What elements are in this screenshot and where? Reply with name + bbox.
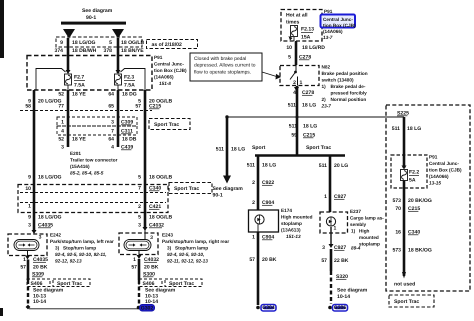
- svg-text:Trailer tow connector: Trailer tow connector: [70, 158, 118, 163]
- svg-text:511: 511: [289, 124, 297, 130]
- svg-text:52: 52: [58, 92, 64, 98]
- svg-text:20 LG: 20 LG: [334, 163, 348, 169]
- svg-text:57: 57: [249, 257, 255, 263]
- svg-text:18 LG/OG: 18 LG/OG: [38, 215, 62, 221]
- svg-text:1: 1: [28, 204, 31, 210]
- svg-text:sembly: sembly: [350, 222, 367, 227]
- svg-text:10: 10: [25, 186, 31, 192]
- svg-text:10: 10: [286, 45, 292, 51]
- svg-text:Central Junc-: Central Junc-: [323, 17, 353, 22]
- svg-text:1: 1: [61, 120, 64, 126]
- svg-text:F2.3: F2.3: [124, 75, 134, 81]
- svg-text:18 LG/OG: 18 LG/OG: [38, 175, 62, 181]
- svg-text:5: 5: [109, 40, 112, 46]
- svg-text:flow to operate stoplamps.: flow to operate stoplamps.: [194, 69, 251, 75]
- svg-text:depressed. Allows current to: depressed. Allows current to: [194, 63, 256, 69]
- svg-text:9: 9: [28, 175, 31, 181]
- svg-text:tion Box (CJB): tion Box (CJB): [154, 68, 187, 73]
- svg-text:Closed with brake pedal: Closed with brake pedal: [194, 56, 246, 62]
- svg-text:3: 3: [28, 223, 31, 229]
- svg-text:10-14: 10-14: [337, 294, 350, 300]
- svg-text:3: 3: [150, 235, 153, 241]
- svg-text:18 LG/OG: 18 LG/OG: [72, 40, 96, 46]
- svg-text:3: 3: [322, 245, 325, 251]
- svg-text:Park/stop/turn lamp, left rear: Park/stop/turn lamp, left rear: [50, 239, 114, 244]
- svg-text:92-11, 92-12, 92-13: 92-11, 92-12, 92-13: [167, 258, 208, 263]
- svg-text:1: 1: [133, 257, 136, 263]
- svg-text:Stop/turn lamp: Stop/turn lamp: [63, 245, 96, 250]
- svg-text:5: 5: [288, 55, 291, 61]
- svg-text:7: 7: [111, 129, 114, 135]
- svg-text:3: 3: [39, 235, 42, 241]
- svg-text:2): 2): [322, 97, 327, 102]
- svg-text:90-1: 90-1: [86, 15, 96, 21]
- svg-text:See diagram: See diagram: [82, 8, 113, 14]
- svg-text:511: 511: [247, 163, 255, 169]
- svg-text:3: 3: [111, 120, 114, 126]
- svg-text:(15A416): (15A416): [70, 164, 90, 169]
- svg-text:64: 64: [108, 137, 114, 143]
- svg-text:F2.13: F2.13: [301, 27, 314, 33]
- svg-text:10-14: 10-14: [33, 299, 46, 305]
- svg-text:Sport Trac: Sport Trac: [169, 281, 194, 287]
- svg-text:151-13: 151-13: [286, 234, 301, 239]
- svg-text:3: 3: [138, 223, 141, 229]
- svg-text:18 LG: 18 LG: [303, 124, 317, 130]
- svg-text:374: 374: [55, 48, 64, 54]
- svg-text:57: 57: [135, 104, 141, 110]
- svg-text:5: 5: [138, 215, 141, 221]
- svg-text:57: 57: [321, 258, 327, 264]
- svg-text:stoplamp: stoplamp: [281, 221, 302, 226]
- svg-text:58: 58: [25, 104, 31, 110]
- svg-text:57: 57: [131, 265, 137, 271]
- svg-text:16: 16: [395, 230, 401, 236]
- svg-text:not used: not used: [394, 282, 415, 288]
- svg-text:13-15: 13-15: [429, 181, 441, 186]
- svg-text:511: 511: [288, 103, 296, 109]
- svg-text:18 OG/LB: 18 OG/LB: [121, 40, 145, 46]
- svg-text:Sport Trac: Sport Trac: [394, 299, 419, 305]
- svg-text:Hot at all: Hot at all: [286, 13, 308, 19]
- svg-text:B: B: [67, 31, 71, 37]
- svg-text:F2.7: F2.7: [74, 75, 84, 81]
- svg-text:times: times: [286, 20, 299, 26]
- svg-text:511: 511: [216, 147, 224, 153]
- svg-text:Sport Trac: Sport Trac: [174, 186, 199, 192]
- svg-text:(14A066): (14A066): [323, 29, 343, 34]
- svg-text:89-4: 89-4: [351, 246, 361, 251]
- svg-text:4: 4: [61, 129, 64, 135]
- svg-text:20 BK: 20 BK: [144, 265, 159, 271]
- svg-text:18 BN/YE: 18 BN/YE: [121, 48, 144, 54]
- svg-text:G302: G302: [141, 305, 154, 311]
- svg-text:Stop/turn lamp: Stop/turn lamp: [175, 245, 208, 250]
- svg-text:(14A066): (14A066): [154, 75, 174, 80]
- svg-text:18 LG: 18 LG: [231, 147, 245, 153]
- svg-text:13-7: 13-7: [323, 35, 333, 40]
- svg-text:18 YE: 18 YE: [72, 92, 86, 98]
- svg-text:18 YE: 18 YE: [72, 137, 86, 143]
- svg-text:switch (13480): switch (13480): [322, 78, 354, 83]
- svg-text:F2.2: F2.2: [409, 170, 419, 176]
- svg-text:7.5A: 7.5A: [124, 83, 135, 89]
- svg-text:2: 2: [138, 204, 141, 210]
- svg-text:151-8: 151-8: [159, 81, 171, 86]
- svg-text:stoplamp: stoplamp: [359, 242, 380, 247]
- svg-text:9: 9: [60, 40, 63, 46]
- svg-text:2: 2: [293, 80, 296, 86]
- svg-text:Central Junc-: Central Junc-: [429, 161, 459, 166]
- svg-text:18 BK/OG: 18 BK/OG: [408, 248, 432, 254]
- svg-text:22 BK: 22 BK: [334, 258, 349, 264]
- svg-text:7: 7: [138, 186, 141, 192]
- svg-text:(14A066): (14A066): [429, 174, 449, 179]
- svg-text:mounted: mounted: [359, 235, 379, 240]
- svg-text:1: 1: [300, 80, 303, 86]
- svg-text:High: High: [359, 229, 370, 234]
- svg-text:See diagram: See diagram: [337, 288, 368, 294]
- svg-text:92-4, 92-5, 92-10,: 92-4, 92-5, 92-10,: [167, 252, 204, 257]
- svg-text:P91: P91: [154, 55, 163, 60]
- svg-text:Sport: Sport: [252, 145, 266, 151]
- svg-text:(13A613): (13A613): [281, 228, 301, 233]
- svg-text:1: 1: [252, 235, 255, 241]
- svg-text:18 LG: 18 LG: [262, 163, 276, 169]
- svg-text:18 OG/LB: 18 OG/LB: [149, 175, 173, 181]
- svg-text:G306: G306: [334, 305, 347, 311]
- svg-text:18 DG: 18 DG: [122, 92, 137, 98]
- svg-text:65: 65: [108, 104, 114, 110]
- svg-text:High mounted: High mounted: [281, 215, 313, 220]
- svg-text:as of 2/18/02: as of 2/18/02: [152, 42, 182, 48]
- svg-text:77: 77: [58, 104, 64, 110]
- svg-text:Sport Trac: Sport Trac: [154, 122, 179, 128]
- svg-text:378: 378: [104, 48, 113, 54]
- svg-text:S406: S406: [31, 281, 43, 287]
- svg-text:C: C: [116, 31, 120, 37]
- svg-text:S406: S406: [143, 281, 155, 287]
- svg-text:18 DB: 18 DB: [122, 137, 137, 143]
- svg-text:pressed forcibly: pressed forcibly: [331, 91, 368, 96]
- svg-text:3): 3): [167, 245, 172, 250]
- svg-text:20 BK: 20 BK: [33, 265, 48, 271]
- svg-text:1): 1): [351, 229, 356, 234]
- svg-text:3): 3): [55, 245, 60, 250]
- svg-text:9: 9: [28, 215, 31, 221]
- svg-text:52: 52: [58, 137, 64, 143]
- svg-text:2: 2: [252, 180, 255, 186]
- svg-text:18 OG/LB: 18 OG/LB: [149, 215, 173, 221]
- svg-text:59: 59: [291, 133, 297, 139]
- svg-text:E174: E174: [281, 208, 292, 213]
- svg-text:573: 573: [393, 198, 402, 204]
- svg-text:Central Junc-: Central Junc-: [154, 62, 184, 67]
- svg-text:1: 1: [324, 194, 327, 200]
- svg-text:See diagram: See diagram: [213, 186, 244, 192]
- svg-text:57: 57: [20, 265, 26, 271]
- svg-text:P91: P91: [429, 155, 438, 160]
- svg-text:18 LG: 18 LG: [302, 103, 316, 109]
- svg-text:E201: E201: [70, 151, 81, 156]
- svg-text:85-2, 85-4, 85-5: 85-2, 85-4, 85-5: [70, 171, 104, 176]
- svg-text:7.5A: 7.5A: [74, 83, 85, 89]
- svg-text:G304: G304: [262, 305, 275, 311]
- svg-text:3: 3: [61, 145, 64, 151]
- svg-text:Brake pedal position: Brake pedal position: [322, 71, 368, 76]
- svg-text:E242: E242: [50, 233, 61, 238]
- svg-text:1): 1): [322, 84, 327, 89]
- svg-text:4: 4: [111, 145, 114, 151]
- svg-text:20 BK: 20 BK: [262, 257, 277, 263]
- svg-text:70: 70: [395, 206, 401, 212]
- svg-text:64: 64: [108, 92, 114, 98]
- svg-text:1: 1: [23, 257, 26, 263]
- svg-text:5: 5: [138, 175, 141, 181]
- svg-text:tion Box (CJB): tion Box (CJB): [323, 23, 356, 28]
- svg-text:N82: N82: [322, 65, 331, 70]
- svg-text:511: 511: [319, 163, 327, 169]
- svg-text:E243: E243: [162, 233, 173, 238]
- svg-text:5A: 5A: [409, 178, 416, 184]
- svg-text:90-1: 90-1: [213, 193, 223, 199]
- svg-text:573: 573: [393, 248, 402, 254]
- svg-text:23-7: 23-7: [321, 104, 332, 109]
- svg-text:18 LG: 18 LG: [407, 126, 421, 132]
- svg-text:92-4, 92-5, 92-10, 92-11,: 92-4, 92-5, 92-10, 92-11,: [55, 252, 107, 257]
- svg-text:18 DB/WH: 18 DB/WH: [72, 48, 97, 54]
- svg-text:1: 1: [334, 226, 337, 232]
- svg-text:Sport Trac: Sport Trac: [306, 145, 331, 151]
- svg-text:Cargo lamp as-: Cargo lamp as-: [350, 216, 384, 221]
- svg-text:Normal position: Normal position: [331, 97, 367, 102]
- svg-text:18 LG/RD: 18 LG/RD: [302, 45, 325, 51]
- svg-text:511: 511: [392, 126, 400, 132]
- svg-text:E237: E237: [350, 209, 361, 214]
- svg-text:2: 2: [252, 200, 255, 206]
- svg-text:P91: P91: [324, 9, 333, 14]
- svg-text:tion Box (CJB): tion Box (CJB): [429, 168, 462, 173]
- svg-text:15A: 15A: [301, 35, 311, 41]
- svg-text:20 BK/OG: 20 BK/OG: [408, 198, 432, 204]
- svg-text:Park/stop/turn lamp, right rea: Park/stop/turn lamp, right rear: [162, 239, 229, 244]
- svg-text:92-12, 92-13: 92-12, 92-13: [55, 258, 82, 263]
- svg-text:Brake pedal de-: Brake pedal de-: [331, 84, 366, 89]
- svg-text:Sport Trac: Sport Trac: [57, 281, 82, 287]
